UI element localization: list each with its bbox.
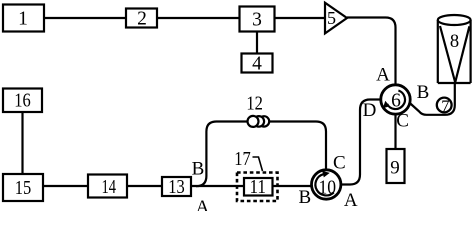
box 16 — [3, 89, 42, 113]
svg-text:15: 15 — [15, 178, 32, 199]
svg-text:4: 4 — [252, 54, 262, 75]
wire 3-5 — [274, 17, 326, 19]
wire 5 to circulator 6 port A — [347, 18, 396, 85]
fiber coil 12 (three loops) — [248, 116, 270, 127]
wire 3-4 — [256, 32, 258, 54]
svg-text:B: B — [298, 187, 311, 208]
svg-text:14: 14 — [101, 177, 116, 198]
svg-text:11: 11 — [249, 177, 266, 198]
box 1 — [3, 5, 44, 32]
box 11 (device under test) — [244, 178, 273, 196]
box 9 — [387, 149, 405, 183]
wire coil 12 to circulator 10 port C — [268, 122, 326, 171]
svg-text:D: D — [363, 100, 377, 121]
wire circulator 6 port B via lens 7 to collector 8 — [407, 83, 455, 115]
svg-text:2: 2 — [137, 8, 147, 29]
box 2 — [126, 9, 157, 28]
svg-text:17: 17 — [234, 149, 251, 170]
svg-text:C: C — [333, 153, 346, 174]
box 4 — [242, 54, 273, 73]
svg-text:A: A — [344, 190, 358, 211]
wire 14-13 — [127, 185, 163, 187]
svg-text:12: 12 — [246, 93, 263, 114]
svg-text:A: A — [196, 197, 210, 211]
wire 13-11-10 bottom run (port A of 13 to port B of 10) — [190, 185, 312, 187]
wire 2-3 — [157, 17, 240, 19]
circulator 6 (circle with rotation arrow) — [381, 85, 410, 114]
wire circulator 6 port C to box 9 — [394, 114, 396, 150]
wire 1-2 — [44, 17, 126, 19]
box 3 — [240, 7, 275, 32]
box 14 — [88, 175, 127, 198]
amplifier triangle 5 — [325, 3, 347, 34]
svg-text:8: 8 — [450, 32, 459, 52]
svg-text:7: 7 — [441, 96, 449, 115]
wire 16-15 — [21, 112, 23, 174]
svg-text:B: B — [192, 159, 205, 180]
svg-text:5: 5 — [327, 8, 336, 28]
svg-text:13: 13 — [168, 177, 185, 198]
svg-text:6: 6 — [391, 90, 401, 111]
wire branch from 13 port B up to coil 12 — [196, 122, 270, 187]
box 13 — [162, 177, 191, 196]
svg-text:3: 3 — [252, 10, 262, 31]
svg-text:C: C — [396, 110, 409, 131]
lens/collimator 7 — [437, 98, 452, 113]
leader line from label 17 to dashed enclosure — [253, 157, 263, 171]
svg-text:B: B — [417, 82, 430, 103]
dashed enclosure 17 around box 11 — [237, 173, 278, 202]
collector cone-in-cylinder 8 — [438, 15, 471, 83]
circulator 10 (circle with rotation arrow) — [312, 170, 341, 199]
wire 10 port A to circulator 6 port D — [341, 100, 382, 185]
wire 15-14 — [43, 185, 89, 187]
svg-text:9: 9 — [390, 158, 400, 179]
svg-text:A: A — [376, 64, 390, 85]
svg-text:1: 1 — [18, 8, 28, 29]
svg-text:16: 16 — [14, 90, 31, 111]
box 15 — [3, 174, 43, 201]
svg-text:10: 10 — [319, 178, 337, 199]
